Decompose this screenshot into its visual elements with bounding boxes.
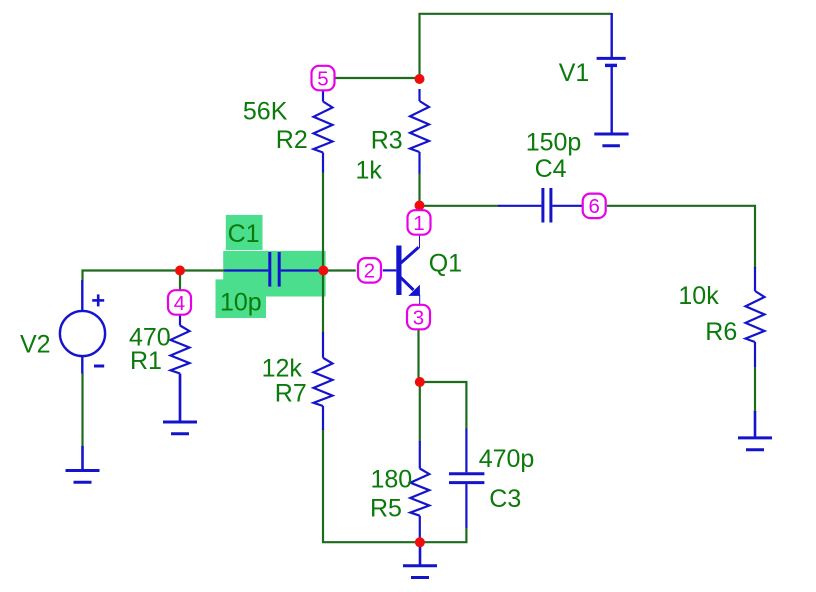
svg-text:180: 180 <box>371 466 413 494</box>
svg-text:2: 2 <box>364 260 375 283</box>
wire top rail from R3 top to V1 <box>420 14 612 79</box>
wire R6 bottom to ground <box>754 367 756 413</box>
svg-text:1: 1 <box>413 212 424 235</box>
wire junction to C3 top <box>420 382 467 429</box>
transistor Q1 <box>383 235 420 305</box>
svg-text:3: 3 <box>413 306 424 329</box>
svg-text:R6: R6 <box>705 318 737 346</box>
node 5 <box>312 66 335 91</box>
ground (V2) <box>66 446 100 482</box>
junction R1 tap <box>175 266 185 276</box>
node 4 <box>168 290 191 315</box>
junction node 1 <box>415 201 425 211</box>
wire C1 junction to node2 badge <box>323 269 355 271</box>
svg-text:10p: 10p <box>220 289 262 317</box>
wire R3 bottom to node1 junction <box>418 173 420 206</box>
ground (bottom rail) <box>403 542 437 578</box>
battery V1 <box>594 13 628 146</box>
ground (R6) <box>738 411 772 450</box>
wire junction to node4 badge <box>179 271 181 292</box>
ground (R1) <box>163 374 197 434</box>
svg-text:5: 5 <box>317 67 328 90</box>
svg-text:6: 6 <box>588 195 599 218</box>
svg-text:R3: R3 <box>371 126 403 154</box>
wire R7 bottom to bottom rail <box>323 429 466 542</box>
resistor R7 <box>314 332 333 430</box>
svg-text:C1: C1 <box>228 220 260 248</box>
svg-text:V2: V2 <box>20 331 51 359</box>
svg-text:R2: R2 <box>276 126 308 154</box>
resistor R6 <box>746 267 765 367</box>
capacitor C3 <box>449 429 484 528</box>
svg-text:V1: V1 <box>559 59 590 87</box>
wire R2 bottom through C1 junction to R7 top <box>322 172 324 333</box>
svg-text:4: 4 <box>174 292 185 315</box>
capacitor C4 <box>498 188 582 223</box>
voltage source V2 <box>60 280 105 374</box>
resistor R2 <box>314 91 333 173</box>
node 1 <box>408 210 431 235</box>
svg-text:R1: R1 <box>130 347 162 375</box>
wire junction to R5 top <box>419 382 421 442</box>
junction C1 right <box>318 266 328 276</box>
junction bottom rail <box>415 537 425 547</box>
svg-text:150p: 150p <box>526 129 582 157</box>
node 3 <box>407 305 430 330</box>
wire node5 to R3 top junction <box>335 77 420 79</box>
wire V2 bottom to ground <box>81 373 83 446</box>
svg-text:470p: 470p <box>479 445 535 473</box>
resistor R5 <box>410 441 429 542</box>
junction node 3 branch <box>415 377 425 387</box>
capacitor C1 <box>224 252 323 287</box>
svg-text:R5: R5 <box>370 495 402 523</box>
svg-text:Q1: Q1 <box>429 250 462 278</box>
svg-text:56K: 56K <box>243 98 288 126</box>
svg-text:C4: C4 <box>535 155 567 183</box>
node 2 <box>358 258 381 283</box>
svg-text:1k: 1k <box>356 157 383 185</box>
wire node6 to R6 top <box>607 206 755 268</box>
C1 selection highlight <box>216 215 326 318</box>
svg-text:12k: 12k <box>262 354 303 382</box>
resistor R3 <box>410 89 429 174</box>
wire node3 badge to junction <box>417 330 419 383</box>
svg-text:10k: 10k <box>678 282 719 310</box>
svg-text:C3: C3 <box>489 485 521 513</box>
wire node1 junction to C4 <box>420 205 499 207</box>
resistor R1 <box>171 313 190 422</box>
svg-text:R7: R7 <box>275 380 307 408</box>
node 6 <box>583 194 606 219</box>
wire left rail V2 to C1 <box>83 271 225 281</box>
junction R3 top <box>415 74 425 84</box>
